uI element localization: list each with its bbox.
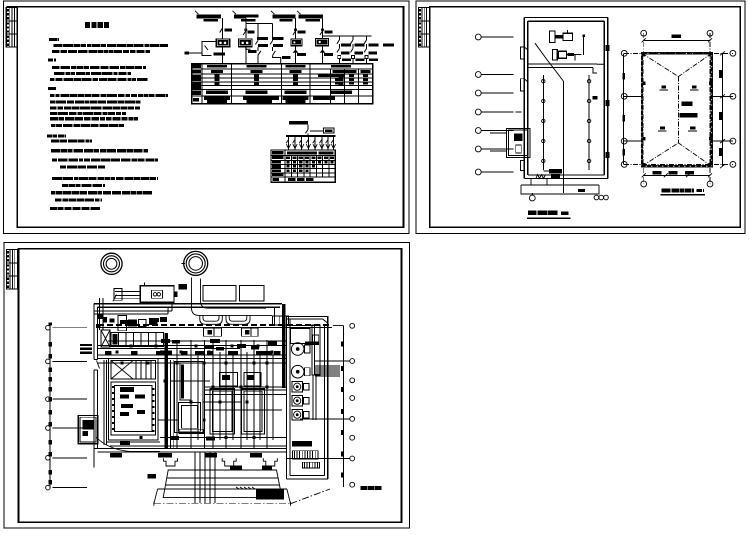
fan unit F1 top room xyxy=(550,30,586,55)
lamp row 2 xyxy=(542,99,591,102)
spare branch breaker 3 xyxy=(364,36,378,64)
interior pipe rack wall xyxy=(98,351,287,358)
wire circuit 3 to panel xyxy=(294,46,306,64)
axis bubbles bottom right xyxy=(578,189,608,200)
riser shaft right room xyxy=(312,325,320,420)
fan unit F2 top room xyxy=(553,49,582,60)
feeder label WL4 xyxy=(297,11,323,22)
site boundary dash-dot xyxy=(154,489,330,506)
wire circuit 1 to panel xyxy=(222,47,224,64)
feeder table row header cells xyxy=(193,65,202,102)
breaker QF4 xyxy=(320,29,333,35)
small pump unit 2 xyxy=(292,396,309,407)
junction dots scatter xyxy=(116,345,274,439)
small pump unit 3 xyxy=(292,410,309,421)
right leader lines xyxy=(286,325,350,458)
chimney 1 xyxy=(101,253,122,274)
feeder label WL3 xyxy=(271,11,296,22)
roof outline with lightning belt xyxy=(642,53,712,166)
feeder label WL1 xyxy=(195,11,221,22)
axis bubbles roof plan top xyxy=(641,30,713,36)
left wall door opening xyxy=(93,359,100,369)
top dimension line roof plan xyxy=(642,38,712,42)
axis bubbles roof plan right xyxy=(730,50,736,167)
label XL near right wall xyxy=(592,96,597,100)
vertical cable runs xyxy=(165,333,274,449)
induced draft fan box xyxy=(140,283,177,302)
extra vertical runs xyxy=(171,360,174,449)
lighting distribution box AL xyxy=(490,128,530,157)
right dimension line xyxy=(341,325,344,487)
boiler unit 2 xyxy=(174,362,203,433)
lighting panel table cells xyxy=(272,151,334,181)
feeder data table grid xyxy=(192,64,373,104)
wire feeder 1 drop xyxy=(222,18,224,39)
feeder label WL2 xyxy=(233,11,259,22)
pump P2 xyxy=(291,365,310,378)
title 设计说明 xyxy=(85,22,109,28)
spare branch breaker 2 xyxy=(351,36,365,64)
valve station 1 on main xyxy=(204,328,222,336)
lighting branch circuit 3 xyxy=(299,136,304,150)
lighting branch circuit 5 xyxy=(313,136,318,150)
panel 3 sheet frame (power plan sheet) xyxy=(4,243,410,529)
feeder table data cells xyxy=(204,65,371,103)
door notches under south wall xyxy=(164,458,278,466)
bypass wire circuit 1 xyxy=(185,42,226,56)
axis grid dash-dot lines roof plan xyxy=(624,33,733,184)
kWh meter box M1 xyxy=(216,39,230,47)
lighting branch circuit 6 xyxy=(319,136,324,150)
interior dividing wall xyxy=(528,60,605,73)
lamp row 1 xyxy=(542,80,591,83)
lighting branch circuit 7 xyxy=(326,136,331,150)
boiler unit 4 xyxy=(241,372,264,434)
wire feeder 3 drop xyxy=(295,18,297,39)
cable exit lines to annex xyxy=(195,452,215,503)
lighting plan building walls xyxy=(524,18,608,179)
lamp row 5 xyxy=(542,159,591,162)
boiler unit 3 xyxy=(210,372,237,434)
breaker QF2 xyxy=(243,29,254,35)
title lighting plan 锅炉房电气平面图 xyxy=(527,213,571,218)
axis bubbles roof plan bottom xyxy=(641,181,713,187)
left dimension line xyxy=(48,324,52,488)
axis bubbles lighting plan left xyxy=(475,34,524,175)
pump unit near door xyxy=(543,169,562,179)
wire feeder 2 drop xyxy=(246,18,273,41)
roof plan downlead labels xyxy=(658,86,699,132)
lamp row 4 xyxy=(542,139,591,142)
cabinet label blobs right room xyxy=(292,441,312,447)
control cabinet right room xyxy=(291,328,311,343)
interior north wall lower flange xyxy=(94,304,172,315)
flue gas pipes to fan xyxy=(113,289,140,302)
duct dip loop 1 xyxy=(200,315,223,324)
right dimension line roof plan xyxy=(719,51,725,168)
door opening bottom wall xyxy=(536,175,546,179)
lighting panel feeder label xyxy=(289,121,334,136)
right axis bubbles xyxy=(350,323,355,487)
lighting branch circuit 8 xyxy=(331,136,336,150)
hatched cable tray 2 xyxy=(303,462,320,468)
side cabinet with cross xyxy=(101,330,110,347)
hatched cable tray 1 xyxy=(292,451,318,460)
breaker QF1 xyxy=(220,28,232,33)
motor label blob xyxy=(179,284,188,290)
annex interior blobs xyxy=(148,466,273,479)
breaker QF3 xyxy=(293,29,306,35)
home run wire to panel xyxy=(535,43,563,193)
left axis bubbles xyxy=(46,322,87,490)
kWh meter box M3 xyxy=(291,39,302,46)
left vertical dimension line roof plan xyxy=(622,53,625,164)
coal feeder black box xyxy=(236,487,284,499)
lighting panel busbar xyxy=(286,135,336,137)
design notes paragraph text xyxy=(47,39,168,208)
wires crossing hall horizontals xyxy=(98,346,286,443)
small pump unit 1 xyxy=(292,382,309,393)
panel 3 signature strip xyxy=(7,250,18,290)
door opening symbols on left wall xyxy=(521,47,528,171)
lighting branch circuit 2 xyxy=(293,136,298,150)
water tank 2 xyxy=(239,285,264,301)
wire circuit 4 to panel xyxy=(321,46,333,64)
spare tail label xyxy=(383,43,394,46)
branch breaker 2b xyxy=(270,37,290,64)
main steam pipe dashed xyxy=(98,325,332,327)
branch breaker 2a xyxy=(255,37,268,64)
lighting branch circuit 1 xyxy=(286,136,291,150)
panel 1 sheet frame (design notes sheet) xyxy=(4,1,409,234)
boiler 2 skirt xyxy=(179,429,204,433)
axis bubbles roof plan left xyxy=(621,50,627,167)
chimney 2 xyxy=(182,251,208,275)
panel 1 signature strip xyxy=(6,8,17,48)
title power plan 锅炉房动力平面图 xyxy=(360,486,381,490)
aisle lines xyxy=(104,360,107,445)
top room equipment cluster xyxy=(103,315,167,331)
flue duct from chimney 2 xyxy=(192,278,273,316)
duct dip loop 2 xyxy=(226,315,250,324)
kWh meter box M2 xyxy=(239,39,253,47)
annex outline xyxy=(154,470,291,504)
lighting branch circuit 4 xyxy=(306,136,311,150)
title lightning protection plan 防雷接地平面图 xyxy=(661,190,705,194)
lighting branch wiring columns xyxy=(543,75,589,170)
entrance platform outline xyxy=(521,179,599,195)
pump P1 xyxy=(291,343,310,356)
wire circuit 2 to panel xyxy=(245,47,247,64)
kWh meter box M4 xyxy=(316,38,329,45)
boiler unit 1 xyxy=(109,359,159,441)
left wall pipes down xyxy=(96,298,103,330)
lamp row 3 xyxy=(542,119,591,122)
power distribution box AP xyxy=(78,415,160,451)
wire feeder 4 drop xyxy=(323,18,372,38)
axis bubble bottom left xyxy=(529,193,535,201)
rack leader label left xyxy=(80,344,92,354)
panel 2 signature strip xyxy=(418,8,429,48)
jog wire under meter 2 xyxy=(246,48,257,54)
equipment band below shaft xyxy=(305,342,319,346)
spare branch breaker 1 xyxy=(337,36,351,64)
annex floor lines xyxy=(166,470,280,485)
panel 2 sheet frame (plans sheet) xyxy=(416,1,745,234)
duct end drop xyxy=(274,308,279,325)
main hall walls xyxy=(94,304,286,468)
top dimension label xyxy=(672,35,681,38)
riser wall stub box xyxy=(273,316,289,325)
bottom dimension line roof plan xyxy=(642,171,712,177)
thick riser pipe xyxy=(282,304,286,388)
cross pipes over boilers xyxy=(98,363,286,390)
window marks right wall xyxy=(606,45,610,158)
roof plan center notes xyxy=(680,102,698,118)
lighting panel table grid xyxy=(271,150,335,182)
roof ridge lines dash-dot xyxy=(642,53,712,166)
MCC cabinet row xyxy=(111,333,164,347)
valve station 2 on main xyxy=(241,328,258,336)
water tank 1 xyxy=(203,285,236,301)
fan-out wires to right dimension xyxy=(315,366,340,376)
hall secondary piping xyxy=(108,341,286,446)
scattered equipment labels main hall xyxy=(110,318,277,457)
right machine room walls xyxy=(286,317,328,479)
